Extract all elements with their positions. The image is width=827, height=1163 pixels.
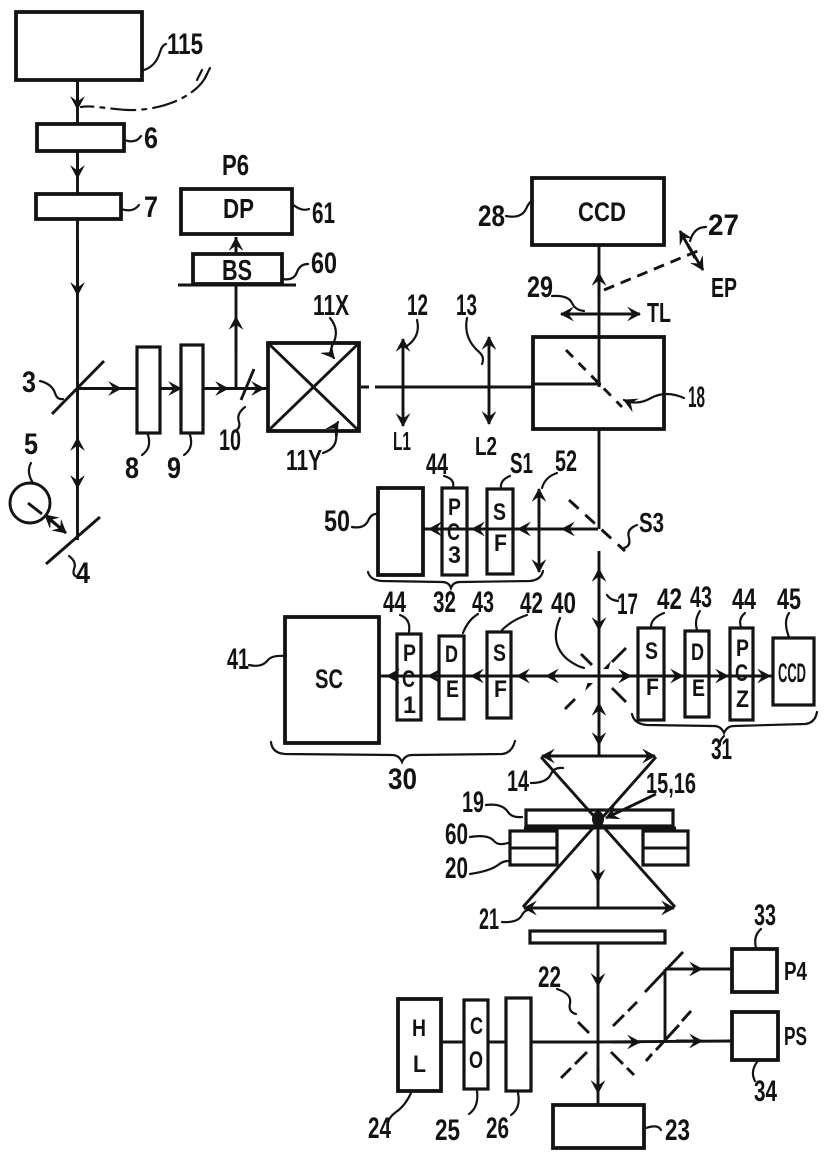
wire 8 to 9 — [160, 387, 181, 390]
svg-text:34: 34 — [754, 1075, 777, 1108]
svg-text:40: 40 — [551, 587, 576, 620]
leader 42 right — [651, 613, 664, 627]
leader 45 — [786, 613, 789, 637]
leader 115 — [144, 44, 166, 70]
leader 40 long — [556, 618, 584, 668]
svg-text:P4: P4 — [784, 956, 807, 986]
svg-text:L2: L2 — [475, 431, 497, 461]
box SF left 42 — [487, 632, 511, 718]
svg-text:6: 6 — [144, 122, 158, 155]
svg-text:21: 21 — [479, 903, 499, 936]
svg-text:C: C — [470, 1013, 483, 1040]
wire junction 10 up to BS 60 — [235, 285, 238, 388]
junction tick 10 — [241, 369, 254, 400]
svg-text:TL: TL — [647, 297, 671, 328]
svg-text:SC: SC — [315, 664, 343, 694]
axis wire 19 to 21 — [597, 826, 600, 908]
svg-text:9: 9 — [167, 452, 181, 485]
wire node 17 to SC — [380, 675, 598, 678]
mirror 4 — [46, 517, 100, 564]
svg-text:C: C — [735, 660, 748, 687]
svg-text:15,16: 15,16 — [646, 768, 696, 800]
box 9 (waveplate) — [181, 345, 203, 433]
leader 44 mid-left — [400, 615, 409, 632]
double arrow 52 — [538, 489, 541, 518]
svg-text:10: 10 — [219, 424, 241, 457]
box SF S1 — [487, 489, 513, 574]
leader 61 — [292, 204, 309, 210]
svg-text:S: S — [645, 638, 658, 665]
svg-text:8: 8 — [125, 452, 139, 485]
wire cube to lens 12 dashed — [361, 386, 385, 389]
svg-text:CCD: CCD — [578, 197, 626, 227]
wire 9 to cube 11 — [203, 387, 268, 390]
svg-text:L: L — [413, 1051, 426, 1078]
leader 44 upper — [444, 476, 453, 487]
box P4 33 — [732, 949, 777, 992]
svg-text:52: 52 — [555, 445, 577, 478]
svg-text:43: 43 — [472, 586, 494, 619]
wire mirror up to mirror 33 — [664, 969, 667, 1040]
leader S1 — [501, 476, 510, 488]
wire S3 down to node 17 — [598, 551, 601, 676]
svg-text:42: 42 — [657, 583, 682, 616]
svg-text:11X: 11X — [313, 290, 349, 322]
box 115 (laser source) — [16, 12, 142, 80]
svg-text:60: 60 — [445, 818, 468, 851]
node 22 scatter dashes — [613, 1015, 624, 1026]
wire S3 left to group 32 — [423, 528, 598, 531]
svg-text:5: 5 — [24, 428, 38, 461]
svg-text:19: 19 — [462, 786, 484, 819]
box PS 34 — [732, 1012, 778, 1060]
svg-text:F: F — [494, 676, 507, 703]
plate 19 thick bottom — [524, 827, 676, 830]
lens L2 13 double arrow — [488, 337, 491, 348]
box PC1 44 — [397, 634, 421, 720]
leader 41 — [249, 656, 286, 666]
leader 60 lower — [470, 836, 508, 844]
svg-text:P: P — [736, 635, 749, 662]
svg-text:PS: PS — [784, 1021, 807, 1051]
leader 50 — [352, 514, 376, 527]
double arrow 27 eye pupil — [680, 231, 695, 258]
svg-text:S: S — [493, 499, 506, 526]
svg-text:11Y: 11Y — [286, 445, 322, 477]
beam inside 18 — [533, 383, 601, 386]
svg-text:18: 18 — [688, 381, 705, 414]
svg-text:4: 4 — [76, 557, 90, 590]
svg-text:33: 33 — [754, 899, 776, 932]
beamsplitter mirror 3 — [52, 361, 104, 414]
svg-text:27: 27 — [708, 209, 739, 242]
leader 27 — [690, 227, 706, 241]
double arrow 5 to mirror 4 — [45, 515, 64, 531]
svg-text:P: P — [448, 494, 461, 521]
leader 44 right — [740, 613, 745, 627]
mirror upper P4 path — [645, 952, 683, 992]
mirror S3 dashed — [569, 500, 625, 551]
polarizing cube 11 — [268, 343, 359, 431]
wire to P4 — [665, 968, 732, 971]
leader 25 — [469, 1091, 477, 1114]
svg-text:P6: P6 — [222, 150, 249, 182]
svg-text:17: 17 — [617, 588, 638, 621]
brace 30 — [271, 741, 515, 762]
leader 11X — [330, 318, 336, 358]
chopper wheel 5 — [10, 483, 50, 523]
svg-text:31: 31 — [711, 733, 732, 766]
box 26 (filter) — [506, 998, 531, 1091]
box 23 (detector) — [553, 1105, 644, 1148]
svg-text:25: 25 — [435, 1114, 460, 1147]
leader S3 — [624, 525, 637, 548]
leader 10 — [233, 407, 245, 432]
mirror dashed inside 18 — [566, 350, 622, 407]
svg-text:DP: DP — [223, 193, 254, 224]
leader 7 — [121, 205, 139, 210]
svg-text:S1: S1 — [510, 448, 533, 480]
dash-dot pointer curve — [81, 74, 207, 110]
leader 14 — [531, 768, 563, 783]
svg-text:E: E — [446, 676, 459, 703]
specimen plate 19 — [526, 810, 673, 826]
svg-text:P: P — [403, 640, 416, 667]
svg-text:44: 44 — [426, 448, 448, 481]
leader 13 — [466, 318, 483, 364]
brace 32 — [368, 571, 543, 588]
svg-text:S: S — [493, 640, 506, 667]
dashed line to EP — [604, 250, 700, 290]
svg-text:EP: EP — [711, 272, 737, 303]
plate below 21 — [530, 931, 665, 943]
leader 26 — [511, 1093, 519, 1115]
leader 34 — [753, 1062, 757, 1081]
svg-text:43: 43 — [690, 581, 712, 614]
svg-text:42: 42 — [520, 587, 543, 620]
leader 11Y — [323, 422, 338, 453]
svg-text:CCD: CCD — [778, 658, 806, 688]
svg-text:Z: Z — [736, 686, 749, 713]
wire 3 to 8 — [78, 387, 138, 390]
svg-text:BS: BS — [222, 255, 252, 287]
box CCD small 45 — [773, 638, 814, 705]
svg-text:F: F — [494, 530, 507, 557]
leader 43 right — [696, 611, 700, 630]
leader 8 — [142, 435, 149, 455]
box DE right 43 — [685, 631, 709, 717]
plate line under BS 60 — [178, 284, 296, 287]
ray right 14 to 21 — [523, 757, 656, 907]
wire BS to DP — [235, 237, 238, 254]
leader 18 wavy — [624, 394, 684, 403]
box 8 (waveplate) — [137, 347, 160, 433]
svg-text:30: 30 — [388, 763, 417, 796]
focus spot 15,16 — [592, 811, 604, 827]
leader 21 — [502, 910, 531, 922]
svg-text:L1: L1 — [393, 426, 411, 456]
leader 9 — [184, 435, 191, 455]
box BS 60 (beam sampler) — [193, 254, 282, 284]
stage right 60 20 — [643, 831, 688, 865]
box CO 25 (condenser) — [464, 1000, 488, 1089]
svg-text:7: 7 — [144, 191, 158, 224]
wire 18 down to S3 — [598, 429, 601, 529]
wire HL to CO — [441, 1041, 464, 1044]
leader 12 — [407, 320, 418, 346]
svg-text:E: E — [692, 675, 705, 702]
leader 3 — [40, 381, 63, 399]
leader 42 left — [502, 615, 527, 630]
leader 20 — [470, 861, 508, 874]
svg-text:24: 24 — [368, 1112, 391, 1145]
box CCD 28 (camera) — [532, 178, 664, 245]
box SC 41 (signal computer) — [285, 617, 379, 743]
leader 60 — [282, 264, 308, 279]
svg-text:1: 1 — [403, 692, 416, 719]
leader 6 — [124, 136, 141, 141]
svg-text:61: 61 — [312, 197, 335, 230]
leader 31 — [720, 736, 724, 745]
wire node 17 to right group — [599, 675, 773, 678]
leader 17 — [607, 595, 618, 601]
cube diagonal B — [270, 345, 357, 429]
leader 5 — [29, 463, 33, 483]
cube diagonal A — [270, 345, 357, 429]
svg-text:22: 22 — [538, 961, 561, 994]
svg-text:45: 45 — [777, 583, 801, 616]
wire node 17 down double arrow — [598, 676, 601, 756]
svg-text:D: D — [691, 639, 704, 666]
svg-text:3: 3 — [22, 366, 36, 399]
svg-text:O: O — [469, 1047, 483, 1074]
box 50 (detector) — [378, 488, 423, 575]
svg-text:41: 41 — [227, 643, 249, 676]
box PC3 44 — [442, 488, 467, 575]
box DE left 43 — [439, 636, 464, 719]
svg-text:S3: S3 — [639, 507, 664, 538]
svg-text:14: 14 — [507, 765, 529, 798]
svg-text:C: C — [402, 666, 415, 693]
leader 19 — [486, 805, 522, 818]
scanner box 18 — [533, 337, 664, 429]
svg-text:F: F — [646, 674, 659, 701]
chopper 5 hand line — [28, 503, 42, 514]
svg-text:50: 50 — [324, 505, 350, 538]
mirror lower PS path — [656, 1025, 679, 1050]
box 6 (shutter) — [37, 124, 124, 151]
leader 23 — [646, 1126, 661, 1130]
svg-text:3: 3 — [448, 542, 461, 569]
leader 22 — [557, 989, 576, 1014]
lens 21 double arrow — [524, 907, 552, 910]
box HL 24 (halogen lamp) — [398, 999, 441, 1091]
leader 29 — [552, 296, 584, 311]
wire 26 to node 22 — [531, 1041, 599, 1044]
svg-text:20: 20 — [445, 852, 468, 885]
box SF right 42 — [638, 628, 664, 720]
node 17 scatter arrowheads — [603, 661, 611, 669]
wire 18 up to CCD 28 — [598, 245, 601, 387]
svg-text:32: 32 — [433, 586, 456, 619]
svg-text:28: 28 — [478, 200, 505, 233]
lens 14 double arrow — [542, 755, 570, 758]
node 17 scatter dashes — [612, 648, 626, 662]
tube lens TL double arrow — [561, 313, 580, 316]
wire node 22 down to 23 — [597, 1042, 600, 1105]
leader 4 — [69, 556, 78, 577]
wire node 22 right to PS — [599, 1041, 732, 1042]
svg-text:13: 13 — [456, 289, 477, 322]
wire CO to 26 — [488, 1041, 506, 1044]
svg-text:D: D — [445, 641, 458, 668]
svg-text:44: 44 — [732, 583, 756, 616]
svg-text:26: 26 — [486, 1112, 509, 1145]
wire lens 12 to box 18 — [383, 386, 533, 389]
leader 28 — [506, 200, 533, 217]
svg-text:12: 12 — [407, 289, 428, 322]
box PC2 44 — [730, 628, 753, 720]
lens L1 12 double arrow — [402, 339, 405, 350]
brace 31 — [632, 712, 817, 733]
stage left 60 20 — [510, 831, 557, 865]
tick marks — [197, 68, 210, 80]
leader 43 left — [463, 614, 478, 633]
leader 52 — [542, 473, 557, 488]
svg-text:23: 23 — [665, 1114, 690, 1147]
axis wire 21 to node 22 — [597, 943, 600, 1042]
svg-text:44: 44 — [383, 586, 406, 619]
leader 33 — [755, 929, 761, 948]
svg-text:29: 29 — [527, 271, 553, 304]
box DP 61 (detector) — [181, 189, 292, 234]
plate smudge — [604, 930, 625, 933]
wire 115 to 6 — [76, 80, 79, 124]
arrow 15,16 — [606, 794, 656, 818]
svg-text:H: H — [412, 1015, 426, 1042]
box 7 (attenuator) — [36, 194, 121, 219]
ray left 14 to 21 — [541, 757, 675, 907]
leader 24 — [388, 1093, 411, 1123]
svg-text:60: 60 — [311, 247, 337, 280]
wire 7 to mirror 3 — [76, 219, 79, 388]
wire 3 down to 4 double arrow — [76, 388, 79, 540]
svg-text:115: 115 — [167, 28, 203, 61]
leader 32 — [447, 592, 450, 601]
wire 6 to 7 — [76, 151, 79, 194]
